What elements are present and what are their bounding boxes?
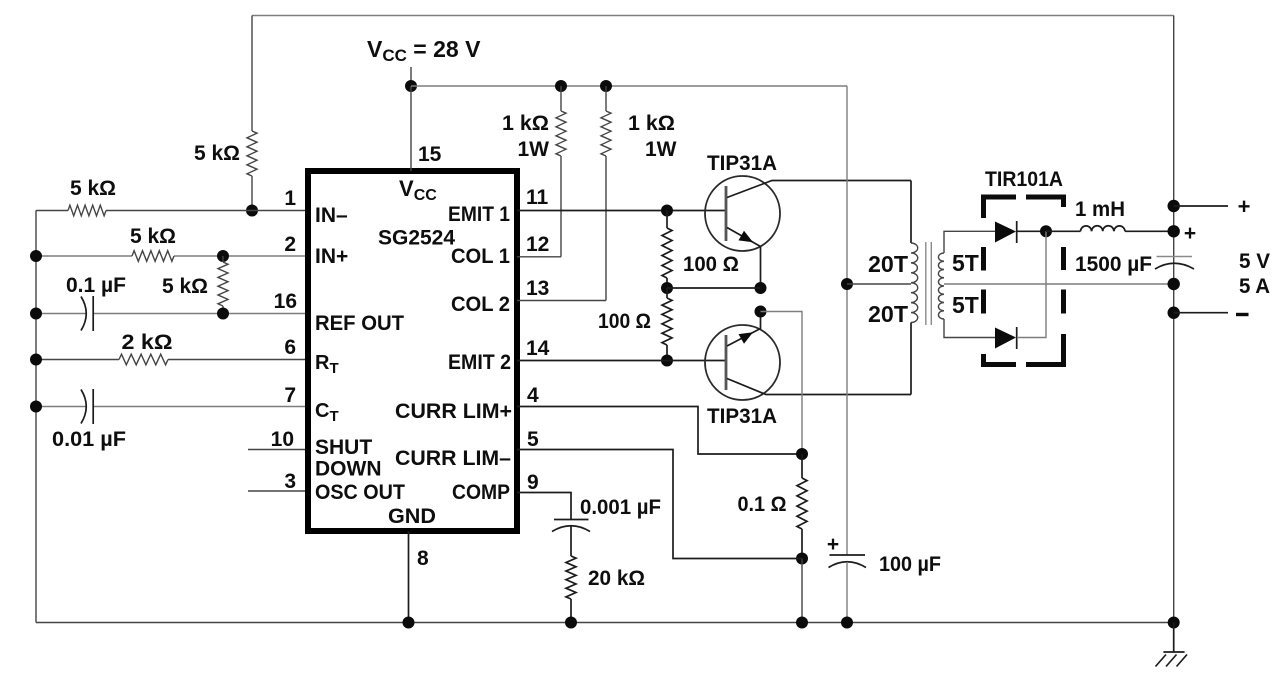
svg-text:+: + bbox=[1238, 194, 1251, 219]
svg-text:1W: 1W bbox=[518, 138, 550, 161]
svg-text:9: 9 bbox=[527, 471, 539, 494]
svg-text:+: + bbox=[1184, 222, 1196, 245]
node D1/D2 out bbox=[1040, 225, 1052, 237]
svg-text:100 Ω: 100 Ω bbox=[683, 253, 739, 276]
svg-text:5: 5 bbox=[527, 428, 539, 451]
node sense rail bbox=[796, 617, 808, 629]
svg-text:COL 1: COL 1 bbox=[451, 245, 510, 268]
svg-text:20T: 20T bbox=[868, 251, 908, 277]
svg-text:2 kΩ: 2 kΩ bbox=[122, 331, 173, 354]
svg-text:1 kΩ: 1 kΩ bbox=[502, 112, 549, 135]
wire pin9 COMP route bbox=[517, 493, 571, 520]
capacitor C1 0.1uF bbox=[81, 297, 86, 331]
wire pin11 EMIT1 row bbox=[517, 210, 726, 212]
wire pin5 CURR LIM- route bbox=[517, 450, 802, 559]
transformer T1 core bbox=[925, 242, 927, 325]
svg-text:1 mH: 1 mH bbox=[1075, 198, 1125, 221]
resistor R5 2k bbox=[119, 354, 168, 365]
wire bottom rail bbox=[36, 622, 1174, 624]
svg-text:5 kΩ: 5 kΩ bbox=[70, 177, 116, 200]
node rail right bbox=[1168, 617, 1180, 629]
wire emitters to sense bbox=[761, 312, 803, 455]
wire right bus bbox=[1173, 16, 1175, 623]
svg-text:5 kΩ: 5 kΩ bbox=[130, 225, 176, 248]
transformer T1 secondary bottom lead bbox=[944, 319, 995, 338]
transistor Q1 collector bbox=[727, 181, 911, 198]
svg-text:TIP31A: TIP31A bbox=[707, 152, 777, 175]
capacitor C2 0.01uF bbox=[81, 390, 86, 424]
node R9/pin14 bbox=[661, 355, 673, 367]
svg-text:4: 4 bbox=[527, 384, 539, 407]
transformer T1 secondary top lead bbox=[944, 231, 995, 253]
svg-text:1500 µF: 1500 µF bbox=[1075, 253, 1152, 276]
wire pin2 IN+ row bbox=[36, 255, 305, 257]
svg-text:8: 8 bbox=[417, 547, 429, 570]
svg-text:7: 7 bbox=[284, 384, 296, 407]
capacitor C5 1500uF bbox=[1157, 256, 1193, 258]
transistor Q2 emitter bbox=[727, 312, 761, 347]
resistor R1 5k top-left bbox=[247, 16, 257, 211]
svg-text:SHUT: SHUT bbox=[315, 436, 372, 459]
node Q1/Q2 emitters bbox=[755, 306, 767, 318]
inductor L1 1mH bbox=[1081, 226, 1126, 232]
wire D2 cathode up bbox=[1017, 231, 1046, 337]
rectifier module U2 TIR101A dashed box bbox=[981, 195, 1066, 368]
svg-text:1: 1 bbox=[284, 187, 296, 210]
svg-text:0.001 µF: 0.001 µF bbox=[580, 496, 661, 519]
svg-text:5 V: 5 V bbox=[1239, 250, 1270, 273]
wire output minus bbox=[1174, 312, 1228, 314]
svg-text:TIP31A: TIP31A bbox=[707, 405, 777, 428]
svg-text:CURR LIM–: CURR LIM– bbox=[395, 447, 511, 470]
wire pin12 COL1 bbox=[517, 256, 561, 258]
svg-text:5T: 5T bbox=[952, 292, 979, 318]
node c4 rail bbox=[841, 617, 853, 629]
wire pin6 RT row bbox=[36, 359, 305, 361]
svg-text:13: 13 bbox=[526, 277, 549, 300]
wire top rail bbox=[252, 15, 1174, 17]
transformer T1 primary winding bbox=[911, 243, 918, 323]
svg-text:100 µF: 100 µF bbox=[879, 553, 941, 576]
svg-text:0.1 µF: 0.1 µF bbox=[66, 274, 126, 297]
node sense bottom bbox=[796, 553, 808, 565]
svg-text:COMP: COMP bbox=[452, 481, 510, 504]
svg-text:6: 6 bbox=[284, 336, 296, 359]
label output minus sign bbox=[1236, 313, 1249, 316]
wire emitter join row bbox=[667, 287, 761, 289]
svg-text:EMIT 2: EMIT 2 bbox=[448, 351, 511, 374]
svg-text:3: 3 bbox=[284, 470, 296, 493]
node R11 rail bbox=[565, 617, 577, 629]
svg-text:5 kΩ: 5 kΩ bbox=[194, 142, 240, 165]
node pin11/R8 bbox=[661, 205, 673, 217]
svg-text:SG2524: SG2524 bbox=[378, 227, 455, 250]
svg-text:0.1 Ω: 0.1 Ω bbox=[738, 493, 787, 516]
svg-text:11: 11 bbox=[526, 186, 549, 209]
wire pin7 CT row bbox=[36, 406, 305, 408]
ground symbol bbox=[1156, 623, 1188, 667]
resistor R7 1k 1W bbox=[601, 86, 611, 301]
wire c4 to rail bbox=[846, 562, 848, 623]
op-amp U1 SG2524 box bbox=[308, 171, 517, 531]
node 1k R6 vcc bbox=[555, 80, 567, 92]
svg-text:100 Ω: 100 Ω bbox=[598, 310, 651, 333]
svg-text:GND: GND bbox=[388, 505, 436, 528]
svg-text:5T: 5T bbox=[952, 250, 979, 276]
svg-text:12: 12 bbox=[526, 233, 549, 256]
transformer T1 secondary winding bbox=[938, 253, 944, 319]
node pin7 left bus bbox=[30, 401, 42, 413]
transistor Q1 emitter arrow bbox=[739, 231, 754, 243]
transformer T1 primary wire top bbox=[910, 181, 912, 244]
wire pin13 COL2 bbox=[517, 300, 606, 302]
svg-text:OSC OUT: OSC OUT bbox=[315, 481, 405, 504]
transistor Q2 collector bbox=[727, 379, 911, 395]
svg-text:0.01 µF: 0.01 µF bbox=[52, 428, 126, 451]
node pin6 left bus bbox=[30, 354, 42, 366]
svg-text:5 kΩ: 5 kΩ bbox=[162, 275, 208, 298]
diode D1 upper bbox=[995, 222, 1016, 243]
wire secondary center tap bbox=[944, 283, 1174, 285]
wire pin14 EMIT2 row bbox=[517, 360, 726, 362]
resistor R10 0.1 bbox=[797, 454, 807, 559]
svg-text:14: 14 bbox=[526, 337, 550, 360]
svg-text:+: + bbox=[827, 533, 839, 556]
svg-text:10: 10 bbox=[271, 428, 294, 451]
wire primary tap bbox=[847, 283, 911, 285]
node pin16 left bus bbox=[30, 308, 42, 320]
svg-text:DOWN: DOWN bbox=[315, 458, 382, 481]
transistor Q2 TIP31A circle bbox=[705, 325, 780, 400]
node pin8 rail bbox=[403, 617, 415, 629]
node Q1 emitter/R8R9 wire bbox=[755, 282, 767, 294]
node pin2/R4 bbox=[217, 250, 229, 262]
wire VCC stub bbox=[410, 67, 412, 86]
node cap1500 bottom bbox=[1168, 278, 1180, 290]
wire VCC rail bbox=[411, 85, 847, 87]
resistor R4 5k vertical bbox=[218, 256, 228, 314]
transistor Q2 base bar bbox=[725, 335, 728, 390]
svg-text:20 kΩ: 20 kΩ bbox=[588, 567, 645, 590]
resistor R3 5k pin2 bbox=[132, 251, 174, 262]
node 1k R7 vcc bbox=[600, 80, 612, 92]
transistor Q1 base bar bbox=[725, 186, 728, 241]
wire inductor to node bbox=[1125, 230, 1174, 232]
svg-text:5 A: 5 A bbox=[1239, 275, 1270, 298]
node pin2 left bus bbox=[30, 250, 42, 262]
transistor Q2 emitter arrow bbox=[739, 332, 754, 344]
transistor Q1 emitter bbox=[727, 228, 761, 289]
diode D2 lower bbox=[995, 328, 1016, 349]
svg-text:REF OUT: REF OUT bbox=[315, 312, 404, 335]
resistor R9 100 bbox=[662, 288, 672, 361]
svg-text:IN–: IN– bbox=[315, 204, 348, 227]
wire left bus bbox=[35, 211, 37, 623]
wire pin1 IN- row bbox=[36, 210, 305, 212]
resistor R2 5k pin1 bbox=[68, 205, 106, 216]
wire pin16 REF OUT row bbox=[36, 313, 305, 315]
node R8/R9 bbox=[661, 282, 673, 294]
svg-text:2: 2 bbox=[284, 233, 296, 256]
resistor R8 100 bbox=[662, 211, 672, 289]
node primary center tap bbox=[841, 278, 853, 290]
wire vcc bus down bbox=[846, 86, 848, 555]
node sense top bbox=[796, 448, 808, 460]
wire sense to rail bbox=[801, 559, 803, 623]
capacitor C4 100uF bbox=[830, 554, 866, 556]
wire pin10 stub bbox=[248, 449, 305, 451]
wire pin8 GND bbox=[408, 531, 410, 623]
svg-text:20T: 20T bbox=[868, 301, 908, 327]
wire pin4 CURR LIM+ route bbox=[517, 407, 802, 455]
node junction pin1/R1 bbox=[246, 205, 258, 217]
svg-text:COL 2: COL 2 bbox=[451, 293, 510, 316]
svg-text:EMIT 1: EMIT 1 bbox=[448, 203, 510, 226]
node cap1500 top bbox=[1168, 225, 1180, 237]
svg-text:IN+: IN+ bbox=[315, 245, 348, 268]
wire rectifier to inductor bbox=[1046, 230, 1081, 232]
resistor R11 20k bbox=[566, 526, 576, 623]
resistor R6 1k 1W bbox=[556, 86, 566, 257]
svg-text:15: 15 bbox=[418, 143, 442, 166]
svg-text:1 kΩ: 1 kΩ bbox=[628, 112, 675, 135]
svg-text:CURR LIM+: CURR LIM+ bbox=[395, 400, 512, 423]
node output plus rail bbox=[1168, 200, 1180, 212]
svg-text:16: 16 bbox=[274, 290, 297, 313]
transformer T1 primary wire bottom bbox=[910, 323, 912, 395]
wire pin3 stub bbox=[248, 490, 305, 492]
node VCC bbox=[405, 80, 417, 92]
svg-text:1W: 1W bbox=[645, 138, 677, 161]
transistor Q1 TIP31A circle bbox=[705, 176, 780, 251]
node output minus rail bbox=[1168, 307, 1180, 319]
svg-text:TIR101A: TIR101A bbox=[985, 168, 1063, 191]
wire D1 cathode bbox=[1017, 230, 1046, 232]
wire pin15 bbox=[410, 86, 412, 171]
wire output plus bbox=[1174, 205, 1228, 207]
capacitor C3 0.001uF bbox=[554, 519, 589, 521]
node pin16/R4 bbox=[217, 308, 229, 320]
